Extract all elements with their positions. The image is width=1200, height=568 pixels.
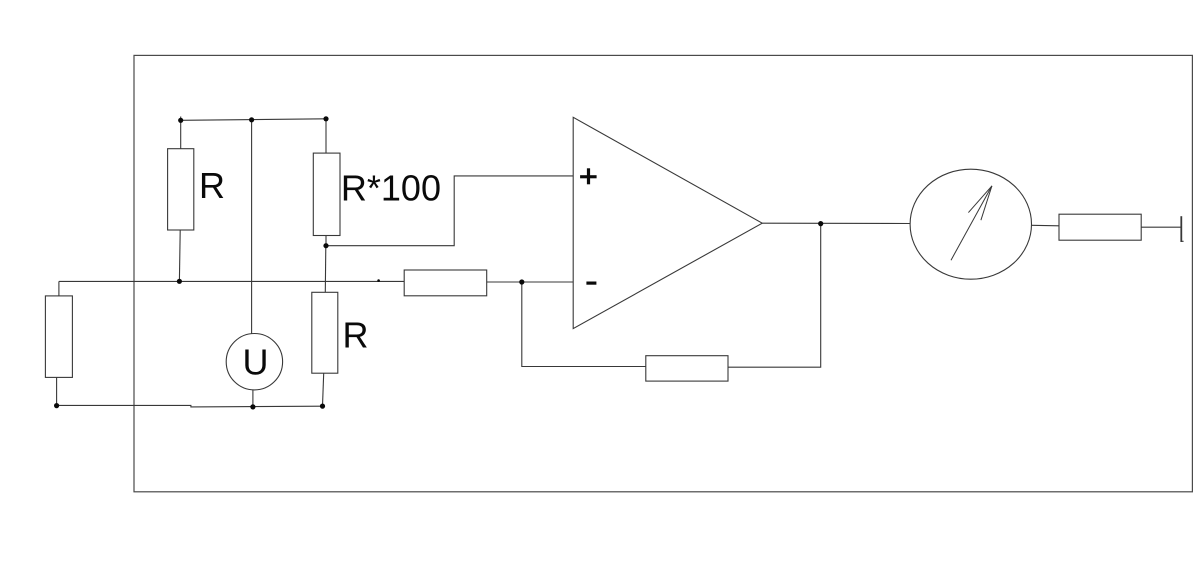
svg-text:U: U bbox=[243, 342, 269, 383]
svg-text:R*100: R*100 bbox=[341, 168, 441, 209]
svg-text:R: R bbox=[343, 315, 369, 356]
svg-text:R: R bbox=[199, 165, 225, 206]
